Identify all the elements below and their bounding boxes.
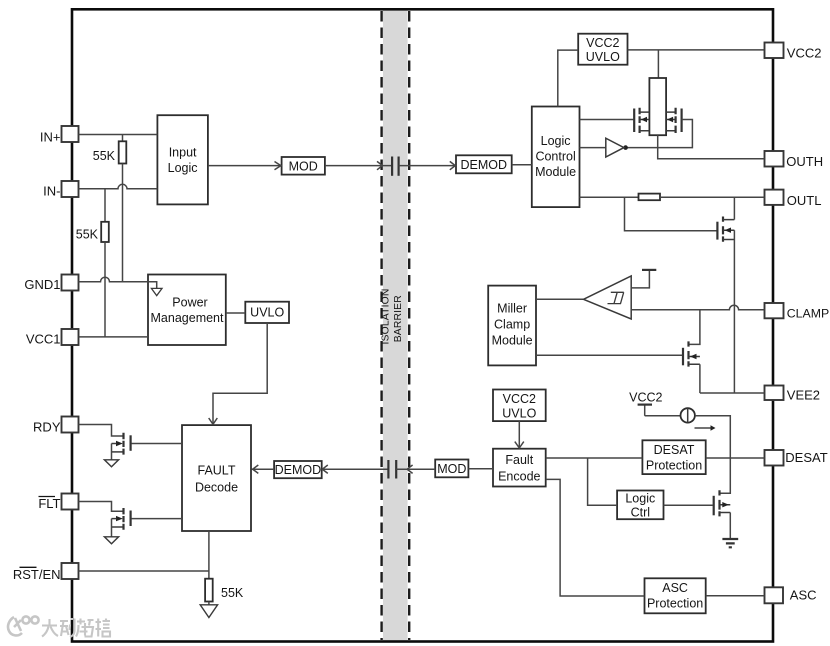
svg-text:Logic: Logic [541, 134, 571, 148]
resistor 55K R1 body [119, 141, 127, 163]
wire Q4 source down to VEE2 wire [699, 364, 701, 393]
transistor Q5 (DESAT discharge) gate bar [713, 496, 715, 516]
resistor R4 (OUTL series) body [639, 194, 661, 201]
wire LCM to high-side gate [580, 119, 634, 121]
svg-text:Encode: Encode [498, 470, 540, 484]
wire rail down to totem pole [657, 50, 659, 78]
wire MOD(bottom) to Fault Encode [468, 468, 493, 470]
wire IN- pullup vertical (upper) [104, 189, 106, 222]
svg-text:Decode: Decode [195, 481, 238, 495]
svg-text:Miller: Miller [497, 302, 527, 316]
resistor 55K R3 body [205, 579, 213, 602]
transistor Q2 (FLT driver) channel [122, 508, 124, 530]
arrowhead at left dashed line [377, 161, 383, 169]
wire Input Logic to MOD with arrowhead [208, 165, 282, 167]
transistor Q2 source stub [112, 526, 123, 528]
pin IN- [43, 181, 78, 199]
pin IN+ [40, 126, 79, 145]
svg-text:DEMOD: DEMOD [275, 463, 322, 477]
isolation barrier left dashed line [380, 11, 382, 640]
transistor Q1 gate bar [130, 435, 132, 451]
wire VEE2 to pin [700, 392, 765, 394]
svg-text:OUTL: OUTL [787, 193, 822, 208]
wire DEMOD(bottom) to capacitor (arrowhead into DEMOD) [322, 468, 388, 470]
wire IN- to Input Logic [79, 184, 158, 189]
watermark text [42, 619, 110, 638]
svg-text:ASC: ASC [790, 588, 817, 603]
transistor Q1 (RDY driver) channel [122, 433, 124, 455]
svg-text:IN-: IN- [43, 184, 60, 199]
wire capacitor to DEMOD with arrowhead [399, 165, 456, 167]
transistor Q2 gate wire to FAULT Decode [132, 518, 183, 520]
svg-text:Module: Module [535, 165, 576, 179]
wire VCC2 rail to pin [628, 49, 765, 51]
wire totem bottom to OUTH pin [658, 135, 765, 159]
block Miller Clamp Module [488, 286, 536, 366]
wire T to current source [645, 415, 681, 417]
capacitor coupler top pair [391, 157, 393, 176]
pin VEE2 [765, 386, 821, 403]
wire RDY pin to FET drain [79, 425, 123, 437]
wire R2 bottom with hop over GND1 then to VCC1 wire [104, 242, 106, 337]
svg-text:Protection: Protection [647, 597, 703, 611]
svg-text:VCC2: VCC2 [503, 392, 536, 406]
svg-text:IN+: IN+ [40, 130, 61, 145]
wire DESAT Protection to DESAT pin [706, 457, 765, 459]
transistor QH channel [638, 108, 640, 133]
wire UVLO down-left to FAULT Decode [213, 323, 267, 423]
block Power Management [148, 275, 226, 346]
wire Fault Encode to DESAT Protection [546, 457, 643, 459]
pin OUTH [765, 151, 824, 169]
svg-text:Module: Module [492, 333, 533, 347]
transistor Q1 source stub [112, 451, 123, 453]
transistor Q5 body arrow [722, 502, 729, 507]
wire FAULT Decode bottom to resistor [208, 531, 210, 579]
junction dot at buffer output [623, 145, 628, 150]
wire Q5 source to ground [729, 513, 731, 539]
transistor QL2 (right of totem) stubs [666, 112, 676, 131]
transistor Q5 stubs [720, 505, 731, 513]
svg-text:ISOLATION: ISOLATION [381, 289, 392, 345]
svg-text:VCC2: VCC2 [586, 36, 619, 50]
svg-text:Control: Control [535, 150, 575, 164]
transistor QH (high side) gate bar [633, 109, 635, 133]
svg-text:VCC2: VCC2 [629, 391, 662, 405]
wire Miller Clamp Module to comparator tip [536, 298, 584, 300]
svg-text:RST/EN: RST/EN [13, 567, 61, 582]
transistor QH stubs [640, 112, 650, 131]
svg-text:Logic: Logic [168, 161, 198, 175]
transistor QL2 channel [674, 108, 676, 133]
ground symbol below R3 [200, 605, 217, 618]
ground (IEC) below Q5 [722, 539, 738, 547]
svg-text:GND1: GND1 [24, 277, 60, 292]
current source I1 circle [681, 408, 695, 422]
isolation barrier gray band [383, 11, 408, 641]
svg-text:RDY: RDY [33, 420, 61, 435]
wire ASC Protection to ASC pin [706, 595, 765, 597]
svg-text:DEMOD: DEMOD [461, 158, 508, 172]
buffer U2 triangle [606, 138, 624, 157]
wire RST/EN to 55K resistor node [79, 570, 209, 572]
pin RST/EN (RST active low) [13, 563, 79, 582]
svg-text:VCC1: VCC1 [26, 332, 61, 347]
svg-text:MOD: MOD [289, 159, 318, 173]
svg-text:VCC2: VCC2 [787, 46, 822, 61]
pin FLT (active low) [38, 494, 78, 512]
wire IN+ pulldown vertical (upper) [122, 135, 124, 142]
transistor Q5 channel [718, 490, 720, 516]
pin RDY [33, 417, 78, 435]
block ASC Protection [645, 578, 706, 613]
transistor Q3 channel [722, 217, 724, 242]
transistor Q4 (Miller clamp) gate bar [682, 348, 684, 366]
svg-text:Power: Power [172, 296, 207, 310]
svg-text:UVLO: UVLO [586, 50, 620, 64]
block DESAT Protection [642, 440, 705, 474]
wire MOD to barrier capacitor [325, 165, 392, 167]
hysteresis glyph inside U3 [608, 292, 624, 303]
block DEMOD (top) [456, 155, 512, 173]
block MOD (bottom) [435, 460, 468, 478]
wire Q2 source to ground [111, 519, 113, 537]
wire LCM to OUTL resistor [580, 196, 639, 198]
comparator U3 triangle (points left) [584, 276, 632, 319]
current direction arrow [695, 427, 712, 429]
ground symbol below Q1 [104, 460, 118, 467]
wire Q3 source down, hop over CLAMP, to VEE2 [733, 230, 735, 393]
wire comparator output to CLAMP pin [631, 305, 764, 310]
svg-text:FLT: FLT [38, 496, 60, 511]
svg-text:Input: Input [169, 146, 197, 160]
ground symbol below Q2 [104, 537, 118, 544]
transistor QH body arrow [641, 117, 647, 122]
wire OUTL to Q3 drain [733, 197, 735, 219]
transistor Q3 (OUTL pulldown) gate bar [716, 222, 718, 240]
wire LCM top to VCC2 UVLO [558, 50, 578, 106]
block Logic Control Module [532, 107, 580, 208]
svg-text:Fault: Fault [505, 453, 533, 467]
pin CLAMP [765, 303, 830, 320]
wire IN+ to Input Logic [79, 134, 158, 136]
block Input Logic [157, 115, 208, 204]
wire resistor to OUTL pin [660, 196, 765, 198]
wire right gate down to buffer output [626, 120, 693, 148]
svg-text:55K: 55K [221, 586, 244, 600]
ground arrow inside Power Management [151, 288, 162, 295]
block FAULT Decode [182, 425, 251, 531]
capacitor coupler bottom pair [387, 460, 389, 479]
svg-text:Management: Management [151, 311, 224, 325]
arrowhead into FAULT Decode top [209, 418, 218, 424]
wire Fault Encode to ASC Protection [546, 479, 645, 596]
transistor Q3 stubs [723, 220, 734, 240]
block MOD (top) [282, 157, 325, 175]
pin VCC2 [765, 43, 822, 61]
svg-text:VEE2: VEE2 [787, 388, 820, 403]
VCC2 T terminal [644, 405, 646, 416]
wire CLAMP node down to Q4 drain [689, 310, 700, 345]
wire R3 to ground [208, 602, 210, 605]
svg-text:UVLO: UVLO [502, 407, 536, 421]
buffer U2 input wire [580, 147, 606, 149]
totem pole center bar [649, 78, 666, 135]
pin ASC [765, 587, 817, 603]
block Logic Ctrl [617, 491, 663, 520]
svg-text:55K: 55K [93, 149, 116, 163]
svg-text:OUTH: OUTH [786, 154, 823, 169]
transistor QL2 body arrow [667, 117, 673, 122]
wire VCC1 to Power Management [79, 336, 149, 338]
svg-text:Logic: Logic [625, 491, 655, 505]
block VCC2 UVLO (top) [578, 34, 627, 65]
wire gate tap down-right to Q3 gate [625, 197, 717, 231]
block UVLO [245, 302, 289, 323]
pin OUTL [765, 190, 822, 208]
transistor Q3 body arrow [724, 228, 731, 233]
transistor QL2 gate bar [680, 109, 682, 133]
wire current source right then down to Q5 drain [695, 416, 730, 494]
svg-text:DESAT: DESAT [785, 450, 827, 465]
transistor Q4 body arrow [690, 354, 697, 359]
pin VCC1 [26, 329, 79, 347]
transistor Q4 channel [687, 341, 689, 366]
transistor Q1 gate wire to FAULT Decode [132, 443, 183, 445]
transistor Q4 stubs [689, 357, 700, 365]
wire Logic Ctrl to Q5 gate [664, 504, 713, 506]
transistor Q1 body arrow [116, 441, 123, 446]
svg-text:BARRIER: BARRIER [393, 295, 404, 342]
svg-text:FAULT: FAULT [198, 464, 236, 478]
wire VCC2 UVLO(bottom) arrow into Fault Encode [518, 421, 520, 447]
svg-text:Ctrl: Ctrl [631, 505, 650, 519]
block VCC2 UVLO (bottom) [493, 390, 546, 422]
wire FAULT Decode right to DEMOD (arrowhead into FAULT) [252, 468, 275, 470]
watermark logo [8, 616, 39, 635]
wire R1 bottom with hop over IN- then to GND1 wire [122, 164, 124, 282]
wire branch down to Logic Ctrl [588, 458, 618, 505]
svg-text:UVLO: UVLO [250, 306, 284, 320]
wire capacitor to MOD(bottom) with left arrowhead [396, 468, 435, 470]
wire Power Management to UVLO [226, 312, 246, 314]
pin GND1 [24, 275, 78, 293]
svg-text:DESAT: DESAT [654, 443, 695, 457]
block Fault Encode [493, 449, 546, 487]
wire DEMOD to Logic Control Module [512, 164, 532, 166]
wire Q1 source to ground [111, 444, 113, 460]
svg-text:CLAMP: CLAMP [787, 306, 829, 320]
wire FLT pin to FET drain [79, 502, 123, 512]
pin DESAT [765, 450, 828, 466]
block DEMOD (bottom) [274, 461, 322, 478]
svg-text:MOD: MOD [437, 462, 466, 476]
comparator U3 reference input with T terminal [631, 271, 649, 288]
transistor Q2 gate bar [130, 511, 132, 527]
svg-text:Clamp: Clamp [494, 317, 530, 331]
resistor 55K R2 body [101, 222, 109, 242]
svg-text:55K: 55K [76, 228, 99, 242]
svg-text:ASC: ASC [662, 581, 688, 595]
isolation barrier right dashed line [408, 11, 410, 640]
transistor Q2 body arrow [116, 516, 123, 521]
svg-text:Protection: Protection [646, 459, 702, 473]
wire MCM to Q4 gate [536, 354, 682, 356]
wire GND1 into Power Management [79, 277, 157, 288]
